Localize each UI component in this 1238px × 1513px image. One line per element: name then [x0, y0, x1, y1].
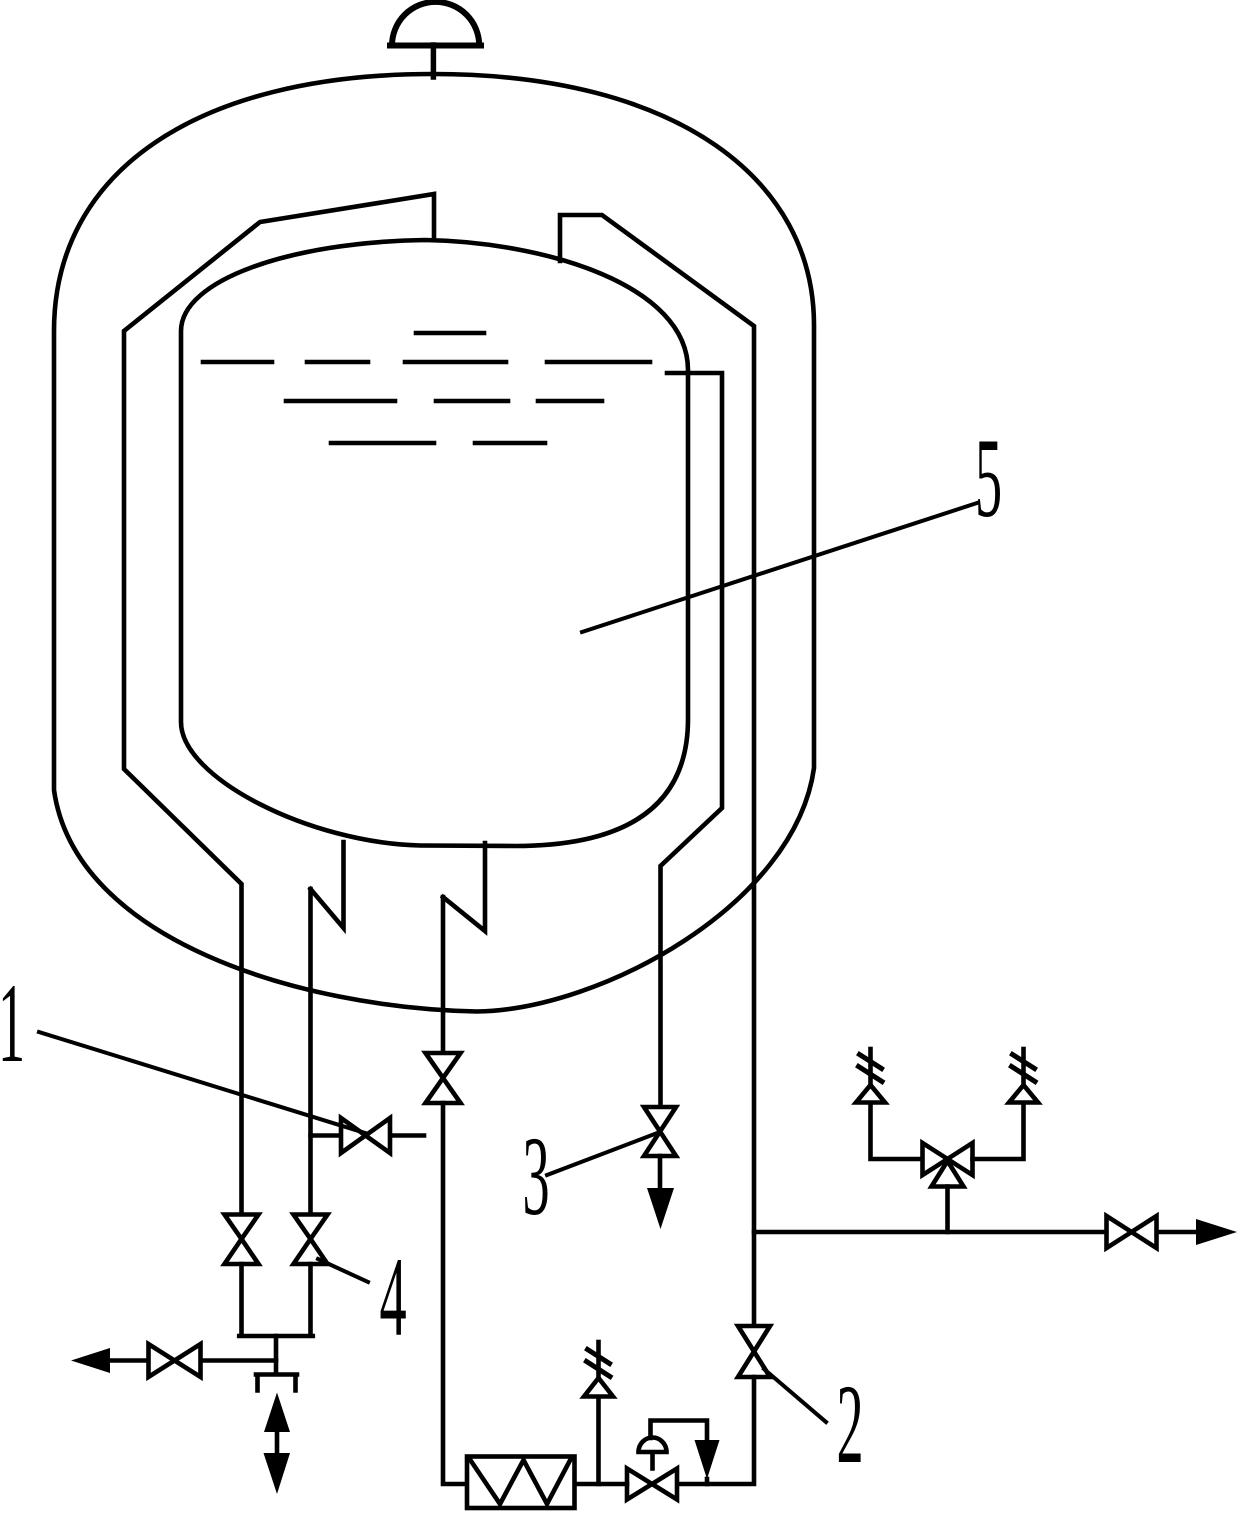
leader line to label 2 [764, 1369, 826, 1422]
safety valve B piping [973, 1103, 1024, 1159]
safety valve A [856, 1085, 885, 1103]
three-way valve stem to main line [945, 1187, 950, 1233]
drain header box under valve pair [239, 1264, 313, 1336]
center pipe upper segment [441, 897, 446, 1053]
leader line to label 4 [318, 1259, 368, 1282]
safety valve B [1009, 1085, 1038, 1103]
valve on center pipe [426, 1053, 461, 1103]
leader line to label 1 [39, 1032, 365, 1133]
drain bracket [256, 1375, 297, 1391]
safety valve C piping [596, 1400, 601, 1484]
bypass flow arrow [695, 1440, 720, 1479]
left blow-off valve [149, 1344, 201, 1377]
three-way valve bottom port triangle [932, 1161, 964, 1187]
label 5 [975, 417, 1002, 542]
relief dome cap on top [392, 2, 479, 46]
svg-text:4: 4 [379, 1236, 406, 1361]
pipe break N1 on second pipe [311, 842, 344, 928]
dip tube (inner vessel to valve 3) [661, 373, 723, 1107]
right exit arrow [1196, 1219, 1237, 1245]
label 2 [836, 1363, 863, 1488]
liquid level dash top [416, 331, 484, 336]
liquid level dashes row 3 [331, 441, 545, 446]
leader line to label 5 [582, 503, 977, 632]
regulator dome actuator [639, 1438, 667, 1469]
svg-text:5: 5 [975, 417, 1002, 542]
safety valve A piping [871, 1103, 922, 1159]
svg-text:3: 3 [522, 1115, 549, 1240]
valve 4 right twin [294, 1215, 328, 1265]
valve 3 [644, 1107, 676, 1156]
valve 3 tail [658, 1156, 663, 1188]
header stub down [274, 1336, 279, 1373]
valve 3 down arrow [647, 1188, 674, 1229]
shield left wall (becomes left pipe) [124, 194, 434, 1215]
leader line to label 3 [547, 1132, 660, 1175]
outer vessel shell [54, 74, 814, 1012]
valve 4 left twin [225, 1215, 259, 1265]
center pipe lower run to heat exchanger [443, 1103, 467, 1484]
left blow-off line [110, 1358, 276, 1363]
valve 2 [738, 1326, 770, 1377]
label 3 [522, 1115, 549, 1240]
shield right wall (becomes long right pipe) [560, 215, 754, 1326]
line from regulator to heat exchanger [575, 1482, 627, 1487]
svg-text:1: 1 [0, 962, 25, 1087]
liquid level dashes row 1 [203, 360, 650, 365]
left exit arrow [71, 1348, 110, 1373]
long pipe lower run and bottom return [677, 1377, 754, 1484]
label 4 [379, 1236, 406, 1361]
right exit valve [1107, 1216, 1157, 1248]
liquid level dashes row 2 [286, 399, 602, 404]
safety valve C [584, 1378, 613, 1397]
pressure building regulator valve [627, 1469, 677, 1500]
inner vessel [181, 240, 688, 846]
heat exchanger / vaporizer [467, 1457, 575, 1509]
gas use line (main horizontal) [754, 1230, 1198, 1235]
svg-text:2: 2 [836, 1363, 863, 1488]
pipe break N2 on center pipe [443, 843, 485, 931]
three-way changeover valve [923, 1143, 973, 1175]
dome stem [431, 45, 437, 77]
label 1 [0, 962, 25, 1087]
second pipe [308, 889, 313, 1215]
vertical double arrow [275, 1432, 280, 1453]
regulator bypass line [651, 1421, 708, 1441]
valve 1 (horizontal on tee from second pipe) [311, 1133, 425, 1138]
